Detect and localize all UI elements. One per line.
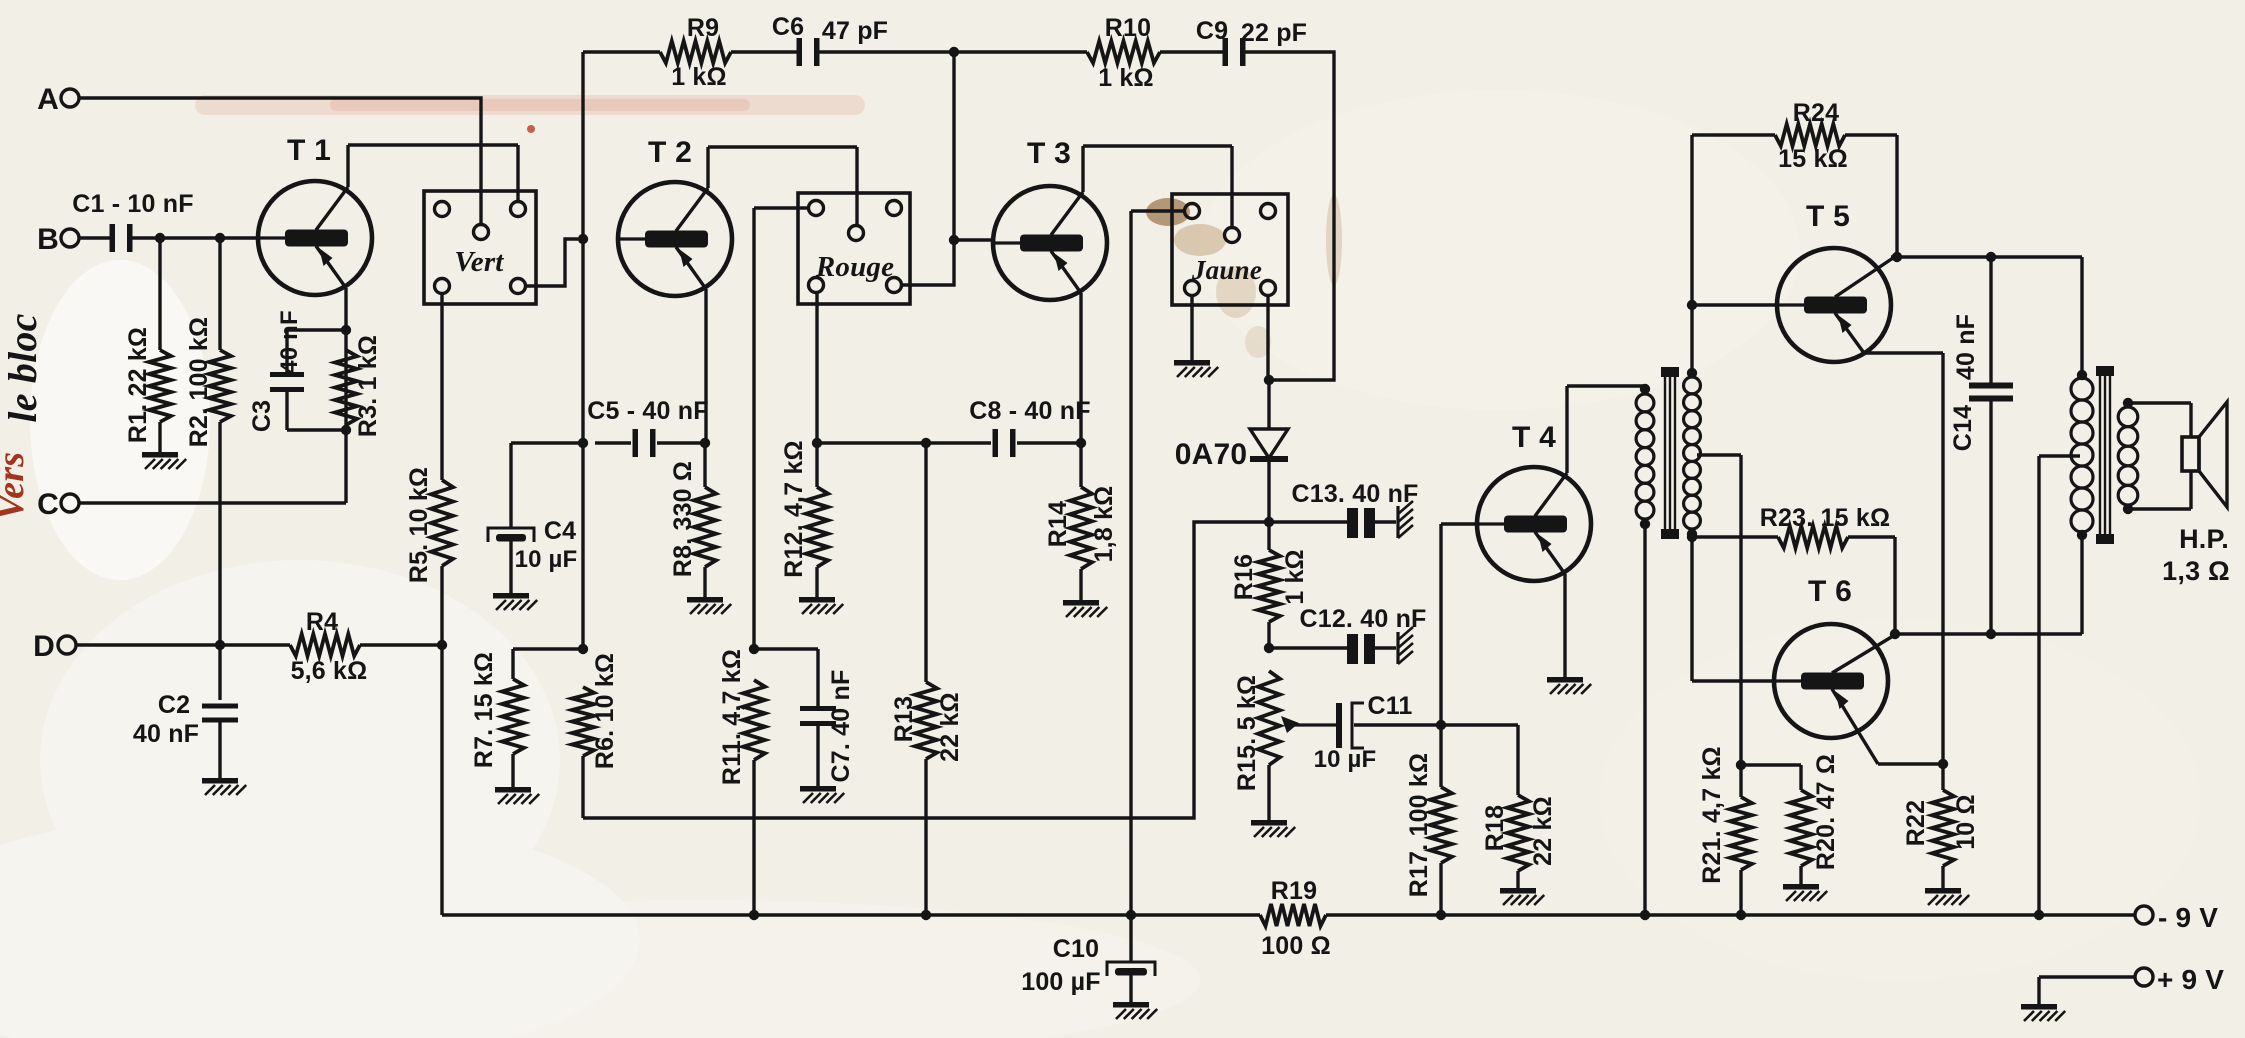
wire +9V [2039, 977, 2135, 1004]
terminal -9V [2135, 902, 2218, 933]
handwritten note vers le bloc [0, 313, 45, 520]
svg-text:C6: C6 [772, 13, 804, 41]
capacitor C10 [1021, 915, 1155, 1002]
wire Rouge top-left pin to R11 column [754, 208, 809, 649]
ground under T4 [1547, 677, 1591, 694]
ground under R18 [1500, 888, 1544, 905]
node R11 top C7 branch [749, 644, 759, 654]
wire R24 left [1692, 133, 1775, 136]
wire T3 emitter down [1079, 293, 1082, 443]
wire R5 node down to supply rail [440, 645, 443, 915]
node R22 top [1938, 759, 1948, 769]
node R14 top [1076, 438, 1086, 448]
node R21 top [1736, 760, 1746, 770]
node rail C10 [1126, 910, 1136, 920]
svg-text:C9: C9 [1196, 17, 1228, 45]
transformer interstage core [1661, 367, 1679, 539]
wire T4 collector to transformer primary [1567, 386, 1645, 473]
node rail R11 [749, 910, 759, 920]
svg-text:R12. 4,7 kΩ: R12. 4,7 kΩ [780, 440, 808, 578]
node on B line at R1 [155, 233, 165, 243]
resistor R18 [1481, 725, 1557, 888]
svg-text:R7. 15 kΩ: R7. 15 kΩ [470, 652, 498, 768]
transformer interstage secondary [1684, 368, 1701, 539]
transformer interstage primary [1636, 384, 1654, 915]
transistor T3 [993, 137, 1107, 300]
resistor R1 [124, 238, 171, 452]
svg-text:T 2: T 2 [648, 136, 692, 169]
wire R24 right to T5 collector [1845, 135, 1897, 257]
svg-text:T 5: T 5 [1806, 200, 1850, 233]
svg-text:R11. 4,7 kΩ: R11. 4,7 kΩ [718, 649, 746, 785]
svg-text:5,6 kΩ: 5,6 kΩ [291, 657, 368, 685]
wire down to R6 [581, 443, 584, 649]
svg-text:R19: R19 [1271, 877, 1317, 905]
wire secondary bottom to T6 base [1692, 534, 1774, 681]
svg-text:C11: C11 [1367, 692, 1412, 720]
svg-text:Jaune: Jaune [1191, 255, 1262, 285]
svg-text:R2. 100 kΩ: R2. 100 kΩ [185, 317, 213, 447]
terminal B [37, 223, 79, 256]
svg-text:le bloc: le bloc [0, 313, 45, 422]
svg-text:1 kΩ: 1 kΩ [1281, 549, 1309, 605]
svg-text:R8. 330 Ω: R8. 330 Ω [669, 461, 697, 577]
resistor R14 [1044, 443, 1118, 600]
svg-text:C13. 40 nF: C13. 40 nF [1291, 480, 1418, 508]
wire T3 collector to Jaune center pin [1083, 146, 1232, 228]
resistor R16 [1230, 522, 1309, 648]
wire T5 emitter to R22 column [1864, 353, 1943, 764]
node R7 branch [578, 644, 588, 654]
node T5 base [1687, 300, 1697, 310]
wire T2 collector to Rouge [708, 147, 857, 226]
wire Jaune bottom-right pin down [1266, 295, 1269, 380]
resistor R4 [290, 608, 442, 685]
transistor T2 [618, 136, 732, 296]
wire C6 to T3 base column [819, 50, 954, 53]
ground under R1 [142, 452, 186, 469]
transformer block Jaune [1172, 194, 1288, 305]
wiper arrow and capacitor C11 [1281, 692, 1441, 773]
svg-text:C14: C14 [1949, 405, 1977, 451]
resistor R5 [405, 467, 453, 645]
resistor R9 [660, 14, 731, 91]
svg-text:R24: R24 [1793, 99, 1839, 127]
ground under R12 [799, 597, 843, 614]
svg-text:R21. 4,7 kΩ: R21. 4,7 kΩ [1698, 746, 1726, 884]
svg-text:R22: R22 [1902, 800, 1930, 846]
wire top line left [583, 50, 660, 53]
svg-text:C12. 40 nF: C12. 40 nF [1299, 605, 1426, 633]
svg-text:100 µF: 100 µF [1021, 968, 1101, 996]
svg-text:R17. 100 kΩ: R17. 100 kΩ [1405, 753, 1433, 898]
capacitor C1 [72, 190, 258, 252]
capacitor C5 [587, 397, 708, 457]
node rail R17 [1436, 910, 1446, 920]
capacitor C3 [248, 310, 346, 432]
svg-text:R3. 1 kΩ: R3. 1 kΩ [354, 335, 382, 437]
pink smudge along A line [195, 95, 865, 133]
wire T6 collector line [1891, 533, 2082, 634]
svg-text:R10: R10 [1105, 14, 1151, 42]
capacitor C4 [488, 443, 577, 593]
ground under C7 [800, 786, 844, 803]
resistor R3 [335, 335, 382, 437]
terminal C [37, 488, 79, 521]
svg-text:1 kΩ: 1 kΩ [671, 63, 727, 91]
svg-text:Vert: Vert [454, 246, 504, 278]
wire A to Vert center pin [79, 98, 481, 225]
wire node to feedback corner [583, 522, 1269, 818]
diode OA70 [1175, 380, 1288, 522]
capacitor C8 [969, 397, 1090, 457]
ground under R20 [1783, 884, 1827, 901]
node R16 R15 C12 [1264, 643, 1274, 653]
svg-text:40 nF: 40 nF [1952, 314, 1980, 380]
resistor R17 [1405, 753, 1452, 915]
potentiometer R15 [1233, 671, 1280, 820]
transistor T4 [1477, 421, 1591, 581]
svg-text:C4: C4 [544, 517, 576, 545]
wire -9V rail [442, 913, 2135, 916]
wire R21 to R20 [1741, 763, 1801, 766]
wire Jaune top-left pin to C10 column [1131, 211, 1185, 915]
svg-text:R20. 47 Ω: R20. 47 Ω [1812, 754, 1840, 870]
node bottom of R3 [341, 425, 351, 435]
capacitor C14 [1949, 257, 2013, 634]
wire T3 base column up [952, 52, 955, 240]
node T2 base [578, 234, 588, 244]
transformer output primary [2071, 370, 2093, 540]
ground under R8 [687, 597, 731, 614]
wire top line to R10 [954, 50, 1087, 53]
wire T1 collector to Vert [348, 145, 518, 202]
svg-text:22 kΩ: 22 kΩ [936, 692, 964, 762]
resistor R19 [1260, 877, 1331, 960]
speaker HP [2162, 402, 2230, 586]
wire T1 emitter down [344, 288, 347, 503]
capacitor C12 with chassis pad [1269, 605, 1427, 664]
node C14 top [1986, 252, 1996, 262]
svg-text:T 6: T 6 [1808, 575, 1852, 608]
node R13 top [921, 438, 931, 448]
node top line T3 base column [949, 47, 959, 57]
resistor R22 [1902, 764, 1980, 888]
wire R7 horizontal [513, 647, 583, 650]
resistor R20 [1790, 754, 1840, 884]
node R4 R5 junction [437, 640, 447, 650]
wire R9 to C6 [731, 50, 797, 53]
terminal A [37, 83, 79, 116]
node rail transformer [1640, 910, 1650, 920]
svg-text:C10: C10 [1053, 935, 1099, 963]
node R23 right [1890, 629, 1900, 639]
wire Vert bottom-right pin to T2 base node [525, 239, 578, 286]
wire R9 branch vertical [581, 52, 584, 239]
svg-text:C: C [37, 488, 59, 521]
svg-text:100 Ω: 100 Ω [1261, 932, 1331, 960]
svg-text:H.P.: H.P. [2179, 524, 2229, 554]
svg-text:0A70: 0A70 [1175, 438, 1248, 471]
svg-text:+ 9 V: + 9 V [2157, 964, 2224, 995]
wire Vert bottom-left pin to R5 [440, 293, 443, 480]
wire C5 node line [511, 441, 705, 444]
transistor T5 [1777, 200, 1893, 362]
node T3 base [949, 235, 959, 245]
resistor R7 [470, 649, 524, 787]
svg-text:R1. 22 kΩ: R1. 22 kΩ [124, 327, 152, 443]
ground under R22 [1925, 888, 1969, 905]
capacitor C13 with chassis pad [1269, 480, 1419, 538]
terminal +9V [2135, 964, 2224, 995]
svg-text:1 kΩ: 1 kΩ [1098, 64, 1154, 92]
node R16 top [1264, 517, 1274, 527]
svg-text:- 9 V: - 9 V [2158, 902, 2218, 933]
svg-text:C2: C2 [158, 691, 190, 719]
ground under C4 [493, 593, 537, 610]
svg-text:40 nF: 40 nF [276, 310, 303, 374]
svg-text:22 pF: 22 pF [1241, 19, 1307, 47]
node C14 bottom [1986, 629, 1996, 639]
node T1 emitter top of R3 [341, 325, 351, 335]
svg-text:1,3 Ω: 1,3 Ω [2162, 556, 2230, 586]
brown stain near Jaune block [1146, 195, 1342, 358]
wire R10 to C9 [1160, 50, 1223, 53]
terminal D [33, 630, 76, 663]
node R23 left [1687, 532, 1697, 542]
wire secondary to speaker [2128, 403, 2191, 509]
capacitor C9 [1196, 17, 1307, 66]
transformer output secondary [2118, 398, 2138, 514]
svg-text:10 µF: 10 µF [515, 546, 578, 573]
svg-text:C3: C3 [248, 400, 276, 432]
ground under R15 [1251, 820, 1295, 837]
svg-text:10 Ω: 10 Ω [1952, 794, 1980, 850]
svg-text:T 4: T 4 [1512, 421, 1556, 454]
capacitor C2 [133, 645, 238, 778]
wire Rouge bottom-left pin to R12 [815, 292, 818, 443]
transformer block Rouge [798, 193, 910, 304]
node rail output CT [2034, 910, 2044, 920]
svg-text:Vers: Vers [0, 452, 32, 520]
ground at +9V [2021, 1004, 2065, 1021]
wire T6 emitter to R22 [1878, 762, 1943, 765]
resistor R23 [1692, 504, 1895, 634]
node rail R21 [1736, 910, 1746, 920]
resistor R2 [185, 238, 231, 645]
wire output center tap to rail [2039, 456, 2080, 915]
capacitor C7 [800, 649, 855, 786]
node R12 C8 line [812, 438, 822, 448]
resistor R11 [718, 649, 765, 915]
svg-text:C1 - 10 nF: C1 - 10 nF [72, 190, 193, 218]
node rail R13 [921, 910, 931, 920]
resistor R12 [780, 440, 828, 597]
wire interstage center tap to R21 [1697, 455, 1741, 765]
transistor T1 [258, 134, 372, 295]
svg-text:22 kΩ: 22 kΩ [1529, 796, 1557, 866]
svg-text:1,8 kΩ: 1,8 kΩ [1090, 486, 1118, 563]
svg-text:R4: R4 [306, 608, 338, 636]
resistor R21 [1698, 746, 1752, 915]
svg-text:10 µF: 10 µF [1314, 746, 1377, 773]
svg-text:C7. 40 nF: C7. 40 nF [827, 670, 855, 783]
wire C to T1 emitter [79, 501, 346, 504]
capacitor C6 [772, 13, 888, 66]
wire Jaune bottom-left pin to ground [1190, 295, 1193, 360]
svg-text:R13: R13 [890, 696, 918, 742]
resistor R13 [890, 443, 964, 915]
wire C9 down to OA70 node [1245, 52, 1334, 380]
node T2 emitter R8 [700, 438, 710, 448]
svg-text:R23. 15 kΩ: R23. 15 kΩ [1760, 504, 1890, 532]
svg-text:T 1: T 1 [287, 134, 331, 167]
wire T4 base column [1441, 524, 1477, 787]
svg-text:A: A [37, 83, 59, 116]
wire T5 base [1692, 303, 1777, 306]
transformer block Vert [424, 191, 536, 304]
svg-text:C8 - 40 nF: C8 - 40 nF [969, 397, 1090, 425]
node R24 join [1892, 252, 1902, 262]
ground under R7 [495, 787, 539, 804]
ground under R14 [1063, 600, 1107, 617]
wire T2 base column down to C5 node [581, 239, 584, 443]
node C5 left [578, 438, 588, 448]
wire secondary top to T5 base and R24 [1690, 135, 1693, 372]
ground under C2 [202, 778, 246, 795]
ground under C10 [1113, 1002, 1157, 1019]
svg-text:R6. 10 kΩ: R6. 10 kΩ [591, 653, 619, 769]
node on B line at R2 [215, 233, 225, 243]
svg-text:D: D [33, 630, 55, 663]
wire C8 node line [817, 441, 1081, 444]
svg-text:R18: R18 [1481, 805, 1509, 851]
transistor T6 [1774, 575, 1893, 764]
wire T5 collector line [1891, 257, 2082, 378]
node wiper R17 [1436, 720, 1446, 730]
svg-text:R5. 10 kΩ: R5. 10 kΩ [405, 467, 433, 583]
svg-text:R16: R16 [1230, 554, 1258, 600]
wire T2 emitter down [704, 289, 707, 443]
node D line at C2 [215, 640, 225, 650]
svg-text:C5 - 40 nF: C5 - 40 nF [587, 397, 708, 425]
svg-text:R14: R14 [1044, 501, 1072, 547]
resistor R8 [669, 443, 716, 597]
svg-text:15 kΩ: 15 kΩ [1778, 145, 1848, 173]
svg-text:R9: R9 [687, 14, 719, 42]
transformer output core [2096, 366, 2114, 544]
svg-text:T 3: T 3 [1027, 137, 1071, 170]
wire wiper to R18 [1441, 723, 1518, 726]
ground under Jaune [1174, 360, 1218, 377]
svg-text:Rouge: Rouge [815, 251, 894, 283]
svg-text:47 pF: 47 pF [822, 17, 888, 45]
wire T4 emitter to ground [1563, 574, 1566, 677]
resistor R10 [1087, 14, 1160, 92]
svg-text:R15. 5 kΩ: R15. 5 kΩ [1233, 675, 1261, 791]
resistor R24 [1775, 99, 1848, 173]
node OA70 top [1264, 375, 1274, 385]
svg-text:B: B [37, 223, 59, 256]
wire C7 branch [754, 647, 818, 650]
wire D line [76, 643, 290, 646]
svg-text:40 nF: 40 nF [133, 720, 199, 748]
wire Rouge bottom-right pin to T3 base [901, 240, 954, 285]
resistor R6 [572, 653, 619, 818]
wire T3 base to circle [954, 238, 993, 241]
